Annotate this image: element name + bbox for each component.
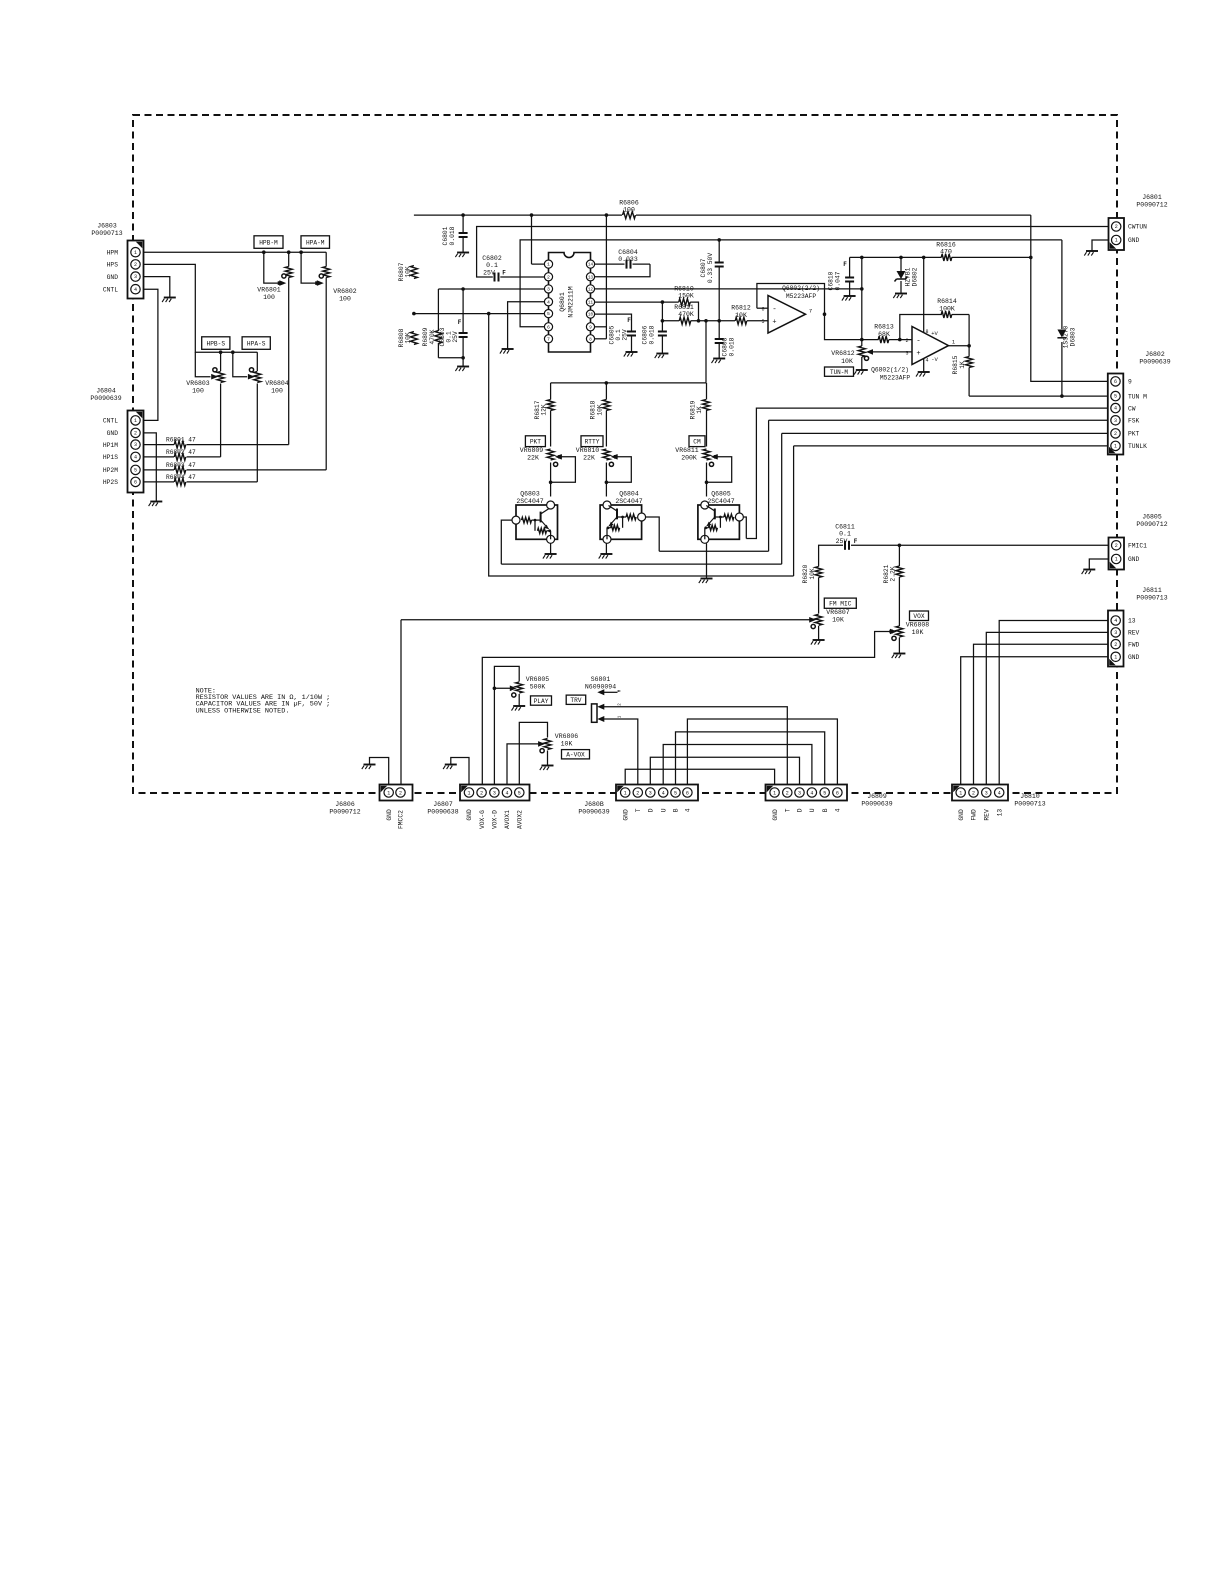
svg-text:6: 6	[134, 480, 137, 486]
svg-text:C6804: C6804	[618, 249, 638, 256]
svg-text:HPA-S: HPA-S	[247, 340, 266, 347]
wire J6803 GND stub	[144, 277, 170, 298]
potentiometer VR6802 100	[323, 267, 330, 278]
wire pin5 riser to TUNLK bus	[489, 314, 794, 576]
resistor R6816 470	[941, 254, 952, 261]
svg-text:FWD: FWD	[1128, 641, 1140, 648]
svg-text:11: 11	[588, 302, 594, 306]
resistor R6813 68K	[878, 336, 889, 343]
svg-text:22K: 22K	[527, 455, 539, 462]
svg-text:REV: REV	[1128, 630, 1140, 637]
svg-text:GND: GND	[772, 809, 779, 821]
label FM MIC	[824, 598, 856, 608]
svg-text:5: 5	[134, 468, 137, 474]
svg-text:VR6811: VR6811	[675, 447, 699, 454]
svg-text:U: U	[809, 808, 816, 812]
potentiometer VR6801 100	[285, 267, 292, 278]
ground C6808	[713, 358, 725, 360]
svg-text:1: 1	[547, 262, 550, 268]
wire C6802 to IC pin2	[500, 276, 548, 278]
svg-text:P0090639: P0090639	[90, 395, 121, 402]
wire HP2S row R6804	[144, 481, 175, 483]
svg-text:FWD: FWD	[971, 809, 978, 821]
svg-text:-V: -V	[931, 356, 938, 363]
svg-text:D6802: D6802	[912, 267, 919, 286]
wire +rail top y=215	[414, 214, 622, 216]
svg-text:12K: 12K	[541, 404, 548, 416]
node rail/R6816 junction	[1029, 256, 1033, 260]
svg-text:R6811: R6811	[674, 304, 694, 311]
wire IC pin11 row to R6810	[591, 301, 679, 303]
svg-text:VOX-G: VOX-G	[479, 810, 486, 829]
wire VR6802 loop	[301, 252, 316, 283]
resistor R6812 10K	[735, 317, 747, 324]
potentiometer VR6808 10K	[896, 626, 903, 637]
svg-text:VR6801: VR6801	[257, 287, 281, 294]
svg-text:0.33 50V: 0.33 50V	[707, 253, 714, 283]
svg-text:Q6802(1/2): Q6802(1/2)	[871, 367, 909, 374]
svg-text:J6801: J6801	[1142, 194, 1162, 201]
svg-text:R6801 47: R6801 47	[166, 437, 196, 444]
svg-text:VR6812: VR6812	[831, 350, 855, 357]
wire VR6812 bottom to ground	[861, 340, 863, 346]
wire VR6811 wiper loop	[707, 457, 732, 483]
svg-text:R6804 47: R6804 47	[166, 474, 196, 481]
capacitor C6805 0.1 25V	[627, 331, 636, 333]
wire HPM row	[144, 251, 327, 253]
svg-text:U: U	[660, 808, 667, 812]
label A-VOX	[562, 750, 590, 759]
wire U2 -V stub	[923, 357, 925, 373]
wire J6811 pin1 to J6810 pin1	[961, 657, 1108, 785]
potentiometer VR6804 100	[254, 372, 261, 383]
svg-text:HPA-M: HPA-M	[306, 239, 325, 246]
wire HP1S row R6802	[144, 456, 175, 458]
diode D6803 1SS270	[1057, 330, 1066, 338]
capacitor C6810 0.047	[845, 277, 854, 279]
potentiometer VR6805 500K	[516, 682, 523, 693]
connector J6811 P0090713	[1108, 611, 1124, 667]
connector J6807 P0090638	[460, 785, 530, 801]
svg-text:13: 13	[996, 809, 1003, 817]
ground U2 -V	[918, 371, 930, 373]
svg-text:HP2S: HP2S	[103, 479, 118, 486]
wire RTTY column	[605, 383, 607, 400]
wire J6808 pin3 to J6809 pin3	[650, 757, 799, 785]
svg-text:3: 3	[547, 287, 550, 293]
svg-text:-: -	[772, 306, 777, 314]
svg-text:3: 3	[798, 790, 801, 796]
svg-text:R6814: R6814	[937, 298, 957, 305]
svg-text:68K: 68K	[878, 331, 890, 338]
wire U2 +V stub	[923, 257, 925, 334]
ground J6807 pin1	[445, 764, 457, 766]
svg-text:R6803 47: R6803 47	[166, 462, 196, 469]
transistor Q6804 2SC4047	[600, 505, 642, 539]
zener diode D6802 HZ7B1	[897, 271, 906, 279]
svg-text:6: 6	[836, 790, 839, 796]
resistor R6809 470K	[437, 289, 439, 331]
svg-text:10K: 10K	[561, 741, 573, 748]
svg-text:T: T	[785, 808, 792, 812]
svg-text:TUN-M: TUN-M	[830, 369, 848, 376]
wire IC pin12 row to rail riser	[591, 288, 862, 290]
wire VR6804 column to HP2S	[256, 352, 258, 371]
potentiometer VR6812 10K	[858, 346, 865, 357]
svg-text:4: 4	[662, 790, 665, 796]
wire J6805 GND stub	[1089, 559, 1108, 570]
svg-text:6: 6	[686, 790, 689, 796]
wire J6801 GND stub	[1092, 240, 1109, 251]
svg-text:1: 1	[1115, 557, 1118, 563]
svg-text:1: 1	[773, 790, 776, 796]
svg-text:VOX-D: VOX-D	[492, 810, 499, 829]
resistor R6819 1K	[703, 400, 710, 411]
label TUN-M	[825, 367, 854, 376]
wire IC pin1 riser	[531, 215, 533, 264]
wire IC pin8/pin9 riser	[605, 215, 607, 339]
svg-text:Q6803: Q6803	[520, 491, 540, 498]
wire J6804 GND stub	[144, 433, 157, 502]
svg-text:A-VOX: A-VOX	[566, 752, 585, 759]
svg-text:4: 4	[1114, 618, 1117, 624]
wire U1 output to R6813 VR6812 node	[825, 314, 879, 339]
wire VR6809 wiper loop	[551, 457, 576, 483]
wire HP1M row R6801	[144, 444, 175, 446]
svg-text:D: D	[797, 808, 804, 812]
wire zener column	[900, 257, 902, 271]
wire VR6810 wiper loop	[606, 457, 631, 483]
potentiometer VR6806 10K	[544, 739, 551, 750]
wire FMCC2 riser	[400, 620, 402, 785]
svg-text:M5223AFP: M5223AFP	[880, 375, 910, 382]
svg-text:F: F	[627, 317, 631, 324]
svg-text:2: 2	[134, 431, 137, 437]
connector J6801 P0090712	[1109, 218, 1125, 250]
svg-text:HPB-S: HPB-S	[207, 340, 226, 347]
svg-text:C6810: C6810	[828, 271, 835, 290]
svg-text:2: 2	[905, 338, 908, 344]
svg-text:VR6804: VR6804	[265, 380, 289, 387]
IC Q6801 NJM2211M	[549, 253, 591, 353]
resistor R6806 100	[623, 212, 636, 219]
svg-text:2: 2	[480, 790, 483, 796]
svg-text:1: 1	[1114, 654, 1117, 660]
svg-text:5: 5	[547, 311, 550, 317]
svg-text:100K: 100K	[939, 306, 955, 313]
node TUN M / D6803	[1060, 394, 1064, 398]
wire Q6804 output to FSK bus	[646, 517, 659, 551]
svg-text:GND: GND	[107, 274, 119, 281]
svg-text:GND: GND	[1128, 654, 1140, 661]
op-amp U1 Q6802(2/2) M5223AFP	[768, 296, 806, 334]
capacitor C6807 0.33 50V	[715, 262, 724, 264]
svg-text:D: D	[648, 808, 655, 812]
wire PKT column	[550, 383, 552, 400]
wire VR6812 wiper to U2 +input	[870, 351, 913, 353]
svg-text:10K: 10K	[912, 629, 924, 636]
resistor R6820 10K	[815, 567, 822, 578]
resistor R6807 10K	[410, 266, 417, 279]
node rail dots	[461, 213, 465, 217]
svg-text:J6803: J6803	[97, 223, 117, 230]
svg-text:C6806: C6806	[642, 325, 649, 344]
svg-text:J6807: J6807	[433, 801, 453, 808]
wire J6808 pin5 to J6809 pin5	[676, 732, 825, 785]
wire VR6801 column to HP1M	[288, 252, 290, 266]
ground C6801	[457, 252, 469, 254]
svg-text:12: 12	[588, 289, 594, 293]
svg-text:HZ7B1: HZ7B1	[905, 267, 912, 286]
svg-text:150K: 150K	[678, 293, 694, 300]
svg-text:HP1M: HP1M	[103, 442, 118, 449]
svg-text:R6810: R6810	[674, 286, 694, 293]
ground C6805	[626, 351, 638, 353]
svg-text:0.018: 0.018	[649, 325, 656, 344]
wire +V supply rail y=257	[850, 256, 942, 258]
svg-text:10K: 10K	[405, 332, 412, 344]
svg-text:5: 5	[823, 790, 826, 796]
svg-text:R6812: R6812	[731, 305, 751, 312]
svg-text:P0090639: P0090639	[578, 809, 609, 816]
wire C6810 column	[849, 257, 851, 277]
svg-text:25V: 25V	[621, 329, 628, 341]
svg-text:1: 1	[624, 790, 627, 796]
wire Q6805 output to CW bus	[744, 517, 747, 539]
svg-text:3: 3	[1114, 418, 1117, 424]
svg-text:14: 14	[588, 264, 594, 268]
svg-text:VR6807: VR6807	[826, 609, 850, 616]
svg-text:100: 100	[263, 294, 275, 301]
svg-text:0.047: 0.047	[835, 271, 842, 290]
wire J6808 pin6 to J6809 pin6	[687, 719, 837, 785]
svg-text:8: 8	[925, 329, 928, 335]
svg-text:VR6803: VR6803	[186, 380, 210, 387]
svg-text:J6806: J6806	[335, 801, 355, 808]
wire IC pin5 row mid node	[414, 313, 544, 315]
resistor R6817 12K	[547, 400, 554, 411]
svg-text:2: 2	[972, 790, 975, 796]
label CM	[689, 436, 705, 447]
svg-text:1SS270: 1SS270	[1062, 325, 1069, 348]
svg-text:P0090638: P0090638	[427, 809, 458, 816]
wire S6801 pos2 to J6809 pin2	[604, 707, 788, 785]
wire U2 output	[949, 345, 970, 347]
label TRV	[566, 695, 586, 704]
svg-text:REV: REV	[984, 809, 991, 821]
svg-text:VR6808: VR6808	[906, 622, 930, 629]
wire IC pin10 to C6805	[591, 314, 632, 331]
svg-text:3: 3	[1114, 630, 1117, 636]
svg-text:P0090713: P0090713	[1014, 801, 1045, 808]
wire J6807 pin1 ground	[451, 758, 469, 786]
svg-text:10K: 10K	[735, 312, 747, 319]
svg-text:CWTUN: CWTUN	[1128, 224, 1147, 231]
svg-text:T: T	[635, 808, 642, 812]
wire FSK bus from Q6804	[659, 550, 768, 552]
svg-text:CM: CM	[693, 439, 701, 446]
ground R6809 C6803	[457, 366, 469, 368]
ground Q6803	[545, 553, 557, 555]
svg-text:1: 1	[134, 250, 137, 256]
svg-text:RTTY: RTTY	[585, 439, 600, 446]
svg-text:4: 4	[505, 790, 508, 796]
svg-text:3: 3	[905, 350, 908, 356]
svg-text:D6803: D6803	[1069, 327, 1076, 346]
svg-text:2: 2	[786, 790, 789, 796]
svg-text:5: 5	[518, 790, 521, 796]
svg-text:2: 2	[1115, 543, 1118, 549]
wire U1 feedback loop	[757, 284, 825, 315]
svg-text:4: 4	[134, 455, 137, 461]
svg-text:10K: 10K	[405, 266, 412, 278]
wire VR6804 wiper loop	[233, 352, 247, 377]
svg-text:470: 470	[940, 249, 952, 256]
svg-text:5: 5	[761, 319, 764, 325]
ground Q6804	[600, 553, 612, 555]
potentiometer VR6811 200K	[703, 449, 710, 460]
svg-text:9: 9	[1128, 379, 1132, 386]
svg-text:4: 4	[547, 299, 550, 305]
wire J6811 pin2 to J6810 pin2	[974, 644, 1109, 785]
svg-text:HP2M: HP2M	[103, 467, 118, 474]
wire J6811 pin3 to J6810 pin3	[986, 632, 1108, 785]
svg-text:1: 1	[467, 790, 470, 796]
potentiometer VR6810 22K	[603, 449, 610, 460]
wire VR6805 wiper	[494, 687, 511, 689]
svg-text:6: 6	[761, 307, 764, 313]
wire bias rail riser to R6811 node	[705, 321, 707, 383]
svg-text:2: 2	[1114, 431, 1117, 437]
svg-text:2SC4047: 2SC4047	[615, 498, 642, 505]
wire Q6805 emitter ground	[706, 544, 708, 579]
svg-text:GND: GND	[1128, 237, 1140, 244]
svg-text:J6804: J6804	[96, 388, 116, 395]
wire R6821 column	[898, 545, 900, 566]
wire VR6808 wiper to VOX-G bus	[482, 632, 891, 786]
svg-text:470K: 470K	[678, 311, 694, 318]
wire IC pin3 row	[438, 288, 544, 290]
ground IC pin4	[502, 348, 514, 350]
svg-text:VR6802: VR6802	[333, 288, 357, 295]
wire VR6803 column to HP1S	[220, 352, 222, 371]
svg-text:N6090094: N6090094	[585, 684, 616, 691]
svg-text:1: 1	[134, 418, 137, 424]
svg-text:13: 13	[1128, 618, 1136, 625]
label HPA-S	[242, 337, 270, 350]
svg-text:25V: 25V	[452, 331, 459, 343]
resistor R6803 47	[174, 466, 186, 473]
svg-text:2: 2	[1114, 642, 1117, 648]
svg-text:HP1S: HP1S	[103, 454, 118, 461]
label PLAY	[531, 696, 552, 705]
svg-text:F: F	[458, 319, 462, 326]
svg-text:200K: 200K	[681, 455, 697, 462]
svg-text:PKT: PKT	[530, 439, 541, 446]
wire PKT row	[782, 432, 1108, 434]
ground J6806 pin1	[364, 764, 376, 766]
svg-text:3: 3	[134, 442, 137, 448]
svg-text:CNTL: CNTL	[103, 286, 118, 293]
svg-text:VR6809: VR6809	[520, 447, 544, 454]
potentiometer VR6803 100	[217, 372, 224, 383]
svg-text:100: 100	[339, 296, 351, 303]
svg-text:470K: 470K	[429, 329, 436, 344]
ground VR6812	[856, 369, 868, 371]
wire ref rail y=240 IC pin6 C6807 D6803	[520, 240, 1062, 327]
svg-text:0.033: 0.033	[618, 256, 638, 263]
ground J6801	[1086, 250, 1098, 252]
svg-text:C6802: C6802	[482, 255, 502, 262]
svg-text:1K: 1K	[959, 361, 966, 369]
svg-text:PKT: PKT	[1128, 431, 1140, 438]
svg-text:4: 4	[134, 287, 137, 293]
wire rail down to J6802 pin6	[1031, 215, 1108, 381]
wire J6808 pin1 to J6809 pin1	[625, 769, 774, 785]
svg-text:GND: GND	[466, 809, 473, 821]
svg-text:TRV: TRV	[570, 697, 581, 704]
resistor R6804 47	[174, 478, 186, 485]
capacitor C6801 0.018	[462, 215, 464, 233]
svg-text:0.1: 0.1	[839, 531, 851, 538]
wire R6812 to U1 +input	[747, 320, 768, 322]
svg-text:Q6801: Q6801	[559, 292, 566, 312]
ground zener D6802	[895, 293, 907, 295]
svg-text:+V: +V	[931, 330, 938, 337]
svg-text:P0090713: P0090713	[1136, 595, 1167, 602]
svg-text:1: 1	[387, 790, 390, 796]
label HPA-M	[301, 236, 330, 249]
svg-text:100: 100	[271, 388, 283, 395]
svg-text:2SC4047: 2SC4047	[707, 498, 734, 505]
transistor Q6803 2SC4047	[516, 505, 558, 539]
wire D6803 column	[1061, 240, 1063, 329]
wire S6801 M line	[604, 691, 618, 693]
svg-text:UNLESS OTHERWISE NOTED.: UNLESS OTHERWISE NOTED.	[196, 707, 290, 715]
svg-text:AVOX1: AVOX1	[504, 810, 511, 829]
svg-text:0.018: 0.018	[449, 226, 456, 245]
svg-text:2: 2	[547, 274, 550, 280]
svg-text:100: 100	[192, 388, 204, 395]
label HPB-S	[202, 337, 230, 350]
svg-text:+: +	[916, 350, 920, 358]
svg-text:3: 3	[493, 790, 496, 796]
capacitor C6802 0.1 25V F	[494, 273, 496, 282]
wire Q6803 output to PKT bus	[501, 520, 512, 564]
svg-text:J6809: J6809	[867, 793, 887, 800]
wire R6811 row	[662, 320, 679, 322]
svg-text:CW: CW	[1128, 405, 1136, 412]
svg-text:FMCC2: FMCC2	[398, 810, 405, 829]
svg-text:F: F	[502, 270, 506, 277]
svg-text:VR6805: VR6805	[526, 676, 550, 683]
svg-text:10K: 10K	[809, 568, 816, 580]
wire PKT bus from Q6803	[501, 563, 781, 565]
capacitor C6806 0.018	[658, 331, 667, 333]
wire C6811 left to R6820	[819, 545, 843, 566]
svg-text:1K: 1K	[696, 406, 703, 414]
resistor R6818 10K	[603, 400, 610, 411]
wire AVOX1 riser to VR6806 wiper	[507, 744, 539, 785]
node U1 output	[823, 312, 827, 316]
connector J6803 P0090713	[128, 241, 144, 299]
svg-text:J6802: J6802	[1145, 351, 1165, 358]
svg-text:TUN M: TUN M	[1128, 393, 1147, 400]
label VOX	[910, 611, 929, 621]
wire CWTUN net	[477, 227, 1109, 278]
wire IC pin14-pin13 loop via C6804	[591, 263, 625, 265]
resistor R6811 470K	[679, 317, 691, 324]
